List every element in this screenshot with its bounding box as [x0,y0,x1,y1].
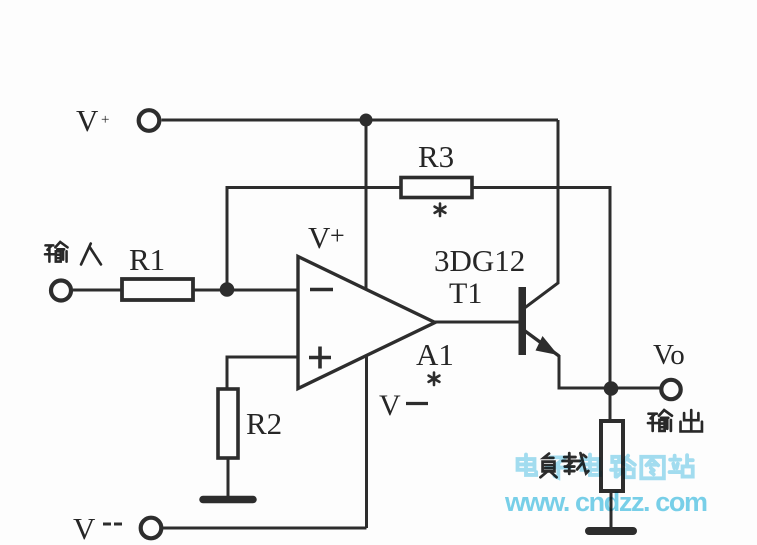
label V- below op-amp [379,389,428,422]
svg-text:www. cndzz. com: www. cndzz. com [504,487,708,517]
svg-text:V: V [76,103,99,138]
svg-text:+: + [330,221,345,250]
svg-text:3DG12: 3DG12 [434,243,525,278]
wire: op-amp V+ pin [365,120,368,290]
svg-text:A1: A1 [416,337,454,372]
asterisk under R3 [435,204,446,217]
wire: load resistor to ground [610,491,613,528]
watermark text line 2: www. cndzz. com [504,487,708,517]
label 输入 (input) [45,242,101,264]
node: V+ rail junction [360,114,373,127]
node: inverting input junction [220,282,235,297]
wire: op-amp output to transistor base [435,321,519,324]
wire: input terminal to R1 [73,289,122,292]
wire: V+ rail top [162,119,559,122]
wire: top rail down to transistor collector [525,120,559,308]
transistor emitter arrow [536,336,559,355]
wire: output node to Vo terminal [611,387,661,390]
wire: R2 to ground [227,458,230,497]
ground (below R2) [203,496,253,504]
svg-text:R3: R3 [418,139,454,174]
terminal input circle [51,281,71,301]
watermark text line 1: 电子电路图站 [518,455,693,479]
svg-text:Vo: Vo [653,339,685,371]
svg-text:T1: T1 [449,277,482,310]
transistor T1 emitter [525,331,559,356]
op-amp A1 triangle [298,257,435,389]
resistor R3 [401,139,472,198]
label 负载 (load) [540,453,588,477]
terminal Vo circle [661,380,680,399]
resistor R1 [122,242,193,300]
ground (below load) [589,527,633,535]
transistor T1 base bar [519,287,527,355]
wire: op-amp V- pin to V- rail [365,356,368,528]
svg-text:V: V [73,511,96,545]
wire: V- rail [163,527,367,530]
op-amp plus sign [309,347,331,369]
load resistor 负载 [601,421,623,491]
node: output junction [604,381,619,396]
terminal V- (bottom left) [73,511,161,545]
label V+ above op-amp [308,220,345,255]
wire: non-inverting input to R2 [227,357,298,389]
svg-text:V: V [308,220,331,255]
wire: R3 right to output node [472,188,610,422]
svg-text:R1: R1 [129,242,165,277]
svg-text:R2: R2 [246,406,282,441]
wire: feedback left (R3 to inverting input) [227,188,401,290]
resistor R2 [218,389,282,458]
svg-text:V: V [379,389,401,422]
asterisk under A1 [429,373,440,386]
wire: emitter to output node [559,355,611,388]
svg-text:+: + [101,112,109,128]
label 输出 (output) [648,410,702,431]
wire: R1 to op-amp inverting input [193,289,298,292]
op-amp minus sign [310,288,333,292]
terminal V+ (top left) [76,103,159,138]
